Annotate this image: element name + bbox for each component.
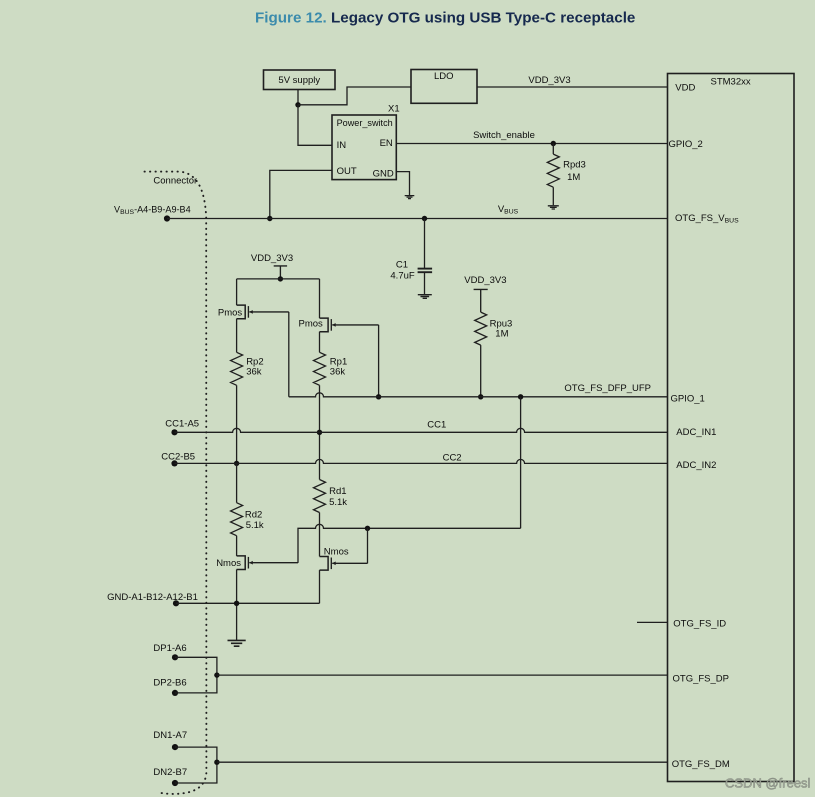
wire: UFP net down to NMOS gate rail bbox=[520, 397, 522, 529]
svg-text:1M: 1M bbox=[495, 328, 508, 339]
node junction dot Rpu3 / UFP bbox=[478, 394, 483, 399]
wire: Rd1 down to Nmos Q4 drain (through gate-rail hop) bbox=[319, 513, 321, 557]
wire: Rd2 down to Nmos Q3 drain bbox=[236, 536, 238, 556]
svg-text:LDO: LDO bbox=[434, 71, 454, 82]
svg-text:OTG_FS_DM: OTG_FS_DM bbox=[672, 759, 730, 770]
svg-text:OTG_FS_DP: OTG_FS_DP bbox=[673, 673, 730, 684]
wire: junction to LDO input bbox=[298, 87, 411, 105]
box U1 STM32xx bbox=[668, 74, 795, 782]
svg-text:Rpd3: Rpd3 bbox=[563, 160, 586, 171]
transistor Q4 gate lead wire bbox=[332, 562, 367, 564]
transistor Q1 gate arrow bbox=[249, 310, 253, 314]
wire: CC1 to STM32 ADC_IN1 (hops over two verticals) bbox=[175, 428, 668, 432]
svg-text:VDD: VDD bbox=[675, 82, 695, 93]
wire: DP to STM32 OTG_FS_DP bbox=[217, 674, 668, 676]
wire: Rp1 down through UFP net and CC2 to Rd1 bbox=[319, 385, 321, 479]
svg-text:STM32xx: STM32xx bbox=[711, 76, 751, 87]
svg-text:DN1-A7: DN1-A7 bbox=[153, 730, 187, 741]
resistor Rpu3 1M bbox=[475, 312, 487, 345]
svg-text:5.1k: 5.1k bbox=[329, 497, 347, 508]
node terminal dot DP2-B6 bbox=[172, 690, 178, 696]
svg-text:X1: X1 bbox=[388, 104, 400, 115]
svg-text:Rd1: Rd1 bbox=[329, 486, 346, 497]
capacitor C1 bbox=[424, 219, 426, 269]
svg-text:Nmos: Nmos bbox=[216, 558, 241, 569]
power symbol VDD_3V3 above PMOS rail bbox=[274, 266, 287, 279]
svg-text:OTG_FS_ID: OTG_FS_ID bbox=[673, 619, 726, 630]
power symbol VDD_3V3 above Rpu3 bbox=[474, 289, 488, 312]
node junction dot DN bracket bbox=[214, 760, 219, 765]
node terminal dot CC2-B5 bbox=[171, 460, 177, 466]
svg-text:Pmos: Pmos bbox=[299, 319, 324, 330]
transistor Q3 (Nmos) body bbox=[237, 556, 246, 570]
transistor Q2 gate bar bbox=[330, 319, 332, 331]
svg-text:Power_switch: Power_switch bbox=[337, 118, 393, 128]
wire: Pmos Q1 drain down to Rp2 bbox=[236, 319, 238, 353]
svg-text:CC1: CC1 bbox=[427, 419, 446, 430]
wire: Rp2 down through CC1 to CC2 junction bbox=[236, 385, 238, 463]
transistor Q1 gate bar bbox=[247, 306, 249, 318]
wire: OTG_FS_ID stub bbox=[637, 621, 668, 623]
wire: DN bracket bbox=[175, 747, 217, 783]
ground symbol under C1 bbox=[418, 295, 432, 299]
svg-text:Pmos: Pmos bbox=[218, 308, 243, 319]
wire: rail down to Pmos Q2 source bbox=[319, 279, 321, 318]
svg-text:OUT: OUT bbox=[337, 166, 357, 177]
svg-text:36k: 36k bbox=[330, 366, 346, 377]
wire: Pmos Q1 gate down to OTG_FS_DFP_UFP net bbox=[288, 312, 290, 397]
resistor Rd2 5.1k bbox=[236, 463, 238, 502]
node terminal dot DN2-B7 bbox=[172, 780, 178, 786]
node junction dot Rp2 / CC2 bbox=[234, 461, 239, 466]
svg-text:5V supply: 5V supply bbox=[278, 75, 320, 86]
node junction dot DP bracket bbox=[214, 672, 219, 677]
box 5V supply bbox=[264, 70, 336, 90]
transistor Q3 gate bar bbox=[247, 557, 249, 569]
wire: rail down to Nmos Q4 gate bbox=[367, 528, 369, 563]
wire: Pmos Q2 gate down to OTG_FS_DFP_UFP net bbox=[378, 325, 380, 397]
ground symbol under Rpd3 bbox=[548, 206, 559, 209]
node junction dot Switch_enable / Rpd3 bbox=[551, 141, 556, 146]
ground symbol under Power_switch GND bbox=[405, 196, 415, 199]
resistor Rp1 36k bbox=[314, 352, 326, 385]
svg-text:VDD_3V3: VDD_3V3 bbox=[464, 275, 506, 286]
wire: NMOS gate rail (hops over Rd1 vertical) bbox=[298, 524, 521, 563]
resistor Rp2 36k bbox=[231, 352, 243, 385]
svg-text:DN2-B7: DN2-B7 bbox=[153, 767, 187, 778]
transistor Q1 gate lead wire bbox=[249, 311, 288, 313]
connector dotted outline bbox=[145, 172, 207, 794]
box Power_switch X1 bbox=[332, 115, 396, 180]
node J1 junction dot 5V rail bbox=[295, 102, 300, 107]
svg-text:EN: EN bbox=[380, 138, 393, 149]
wire: Rpu3 down to UFP net bbox=[480, 345, 482, 397]
wire: LDO output VDD_3V3 to STM32 VDD pin bbox=[477, 86, 668, 88]
box LDO bbox=[411, 70, 477, 104]
node terminal dot VBUS-A4-B9-A9-B4 bbox=[164, 215, 170, 221]
node junction dot GND rail / Q3 source bbox=[234, 601, 239, 606]
ground symbol main bbox=[228, 640, 246, 646]
node junction dot OUT / VBUS bbox=[267, 216, 272, 221]
svg-text:CC2-B5: CC2-B5 bbox=[161, 452, 195, 463]
node junction dot C1 / VBUS bbox=[422, 216, 427, 221]
svg-text:CC1-A5: CC1-A5 bbox=[165, 419, 199, 430]
svg-text:GPIO_1: GPIO_1 bbox=[671, 394, 705, 405]
wire: rail down to Pmos Q1 source bbox=[236, 279, 238, 305]
transistor Q4 gate bar bbox=[330, 558, 332, 570]
svg-text:DP1-A6: DP1-A6 bbox=[153, 643, 186, 654]
wire: 5V supply output down to junction bbox=[297, 90, 299, 105]
svg-text:ADC_IN1: ADC_IN1 bbox=[676, 427, 716, 438]
node junction dot Q2 gate / UFP net bbox=[376, 394, 381, 399]
wire: PMOS supply rail bbox=[237, 278, 320, 280]
wire: Nmos Q4 source down to GND rail bbox=[319, 570, 321, 603]
wire: DN to STM32 OTG_FS_DM bbox=[217, 761, 668, 763]
svg-text:5.1k: 5.1k bbox=[246, 520, 264, 531]
svg-text:C1: C1 bbox=[396, 260, 408, 271]
transistor Q2 (Pmos) body bbox=[320, 318, 329, 332]
transistor Q2 gate arrow bbox=[332, 323, 336, 327]
resistor Rd1 5.1k bbox=[314, 480, 326, 513]
node junction dot UFP / gate-feedback vertical bbox=[518, 394, 523, 399]
svg-text:DP2-B6: DP2-B6 bbox=[153, 678, 186, 689]
wire: GND rail bbox=[176, 602, 320, 604]
svg-text:Figure 12. Legacy OTG using US: Figure 12. Legacy OTG using USB Type-C r… bbox=[255, 9, 635, 26]
transistor Q4 (Nmos) body bbox=[320, 557, 329, 571]
svg-text:Connector: Connector bbox=[153, 176, 197, 187]
node terminal dot DP1-A6 bbox=[172, 654, 178, 660]
svg-text:GPIO_2: GPIO_2 bbox=[669, 139, 703, 150]
svg-text:CSDN @freesl: CSDN @freesl bbox=[725, 776, 811, 791]
wire: Power_switch GND pin to ground bbox=[396, 172, 409, 196]
node terminal dot CC1-A5 bbox=[171, 429, 177, 435]
svg-text:OTG_FS_DFP_UFP: OTG_FS_DFP_UFP bbox=[564, 383, 651, 394]
svg-text:CC2: CC2 bbox=[443, 452, 462, 463]
resistor Rpd3 bbox=[552, 144, 554, 155]
node junction dot VDD rail bbox=[278, 276, 283, 281]
svg-text:ADC_IN2: ADC_IN2 bbox=[676, 460, 716, 471]
svg-text:Switch_enable: Switch_enable bbox=[473, 130, 535, 141]
wire: CC2 to STM32 ADC_IN2 (hops over two verticals) bbox=[175, 459, 668, 463]
transistor Q3 gate arrow bbox=[249, 561, 253, 565]
svg-text:4.7uF: 4.7uF bbox=[390, 271, 414, 282]
transistor Q2 gate lead wire bbox=[332, 324, 378, 326]
svg-text:VDD_3V3: VDD_3V3 bbox=[528, 75, 570, 86]
transistor Q1 (Pmos) body bbox=[237, 305, 246, 319]
svg-text:VDD_3V3: VDD_3V3 bbox=[251, 253, 293, 264]
wire: Pmos Q2 drain down to Rp1 bbox=[319, 332, 321, 353]
svg-text:IN: IN bbox=[337, 140, 347, 151]
wire: EN pin Switch_enable to STM32 GPIO_2 bbox=[396, 143, 667, 145]
node junction dot Nmos Q4 gate / rail bbox=[365, 526, 370, 531]
wire: VBUS rail to STM32 OTG_FS_VBUS bbox=[167, 218, 668, 220]
wire: net OTG_FS_DFP_UFP to STM32 GPIO_1 (hops over Rp1 vertical) bbox=[289, 393, 668, 397]
wire: Nmos Q3 source down to GND rail bbox=[236, 570, 238, 641]
svg-text:GND: GND bbox=[373, 168, 394, 179]
svg-text:36k: 36k bbox=[246, 366, 262, 377]
node terminal dot GND-A1-B12-A12-B1 bbox=[173, 600, 179, 606]
svg-text:Nmos: Nmos bbox=[324, 546, 349, 557]
node junction dot Rp1 / CC1 bbox=[317, 430, 322, 435]
wire: junction down to Power_switch IN pin bbox=[298, 105, 332, 146]
svg-text:GND-A1-B12-A12-B1: GND-A1-B12-A12-B1 bbox=[107, 592, 198, 603]
wire: DP bracket bbox=[175, 657, 217, 693]
wire: Power_switch OUT pin down to VBUS rail bbox=[270, 170, 332, 218]
transistor Q3 gate lead wire bbox=[249, 562, 298, 564]
svg-text:1M: 1M bbox=[567, 172, 580, 183]
node terminal dot DN1-A7 bbox=[172, 744, 178, 750]
transistor Q4 gate arrow bbox=[332, 562, 336, 566]
